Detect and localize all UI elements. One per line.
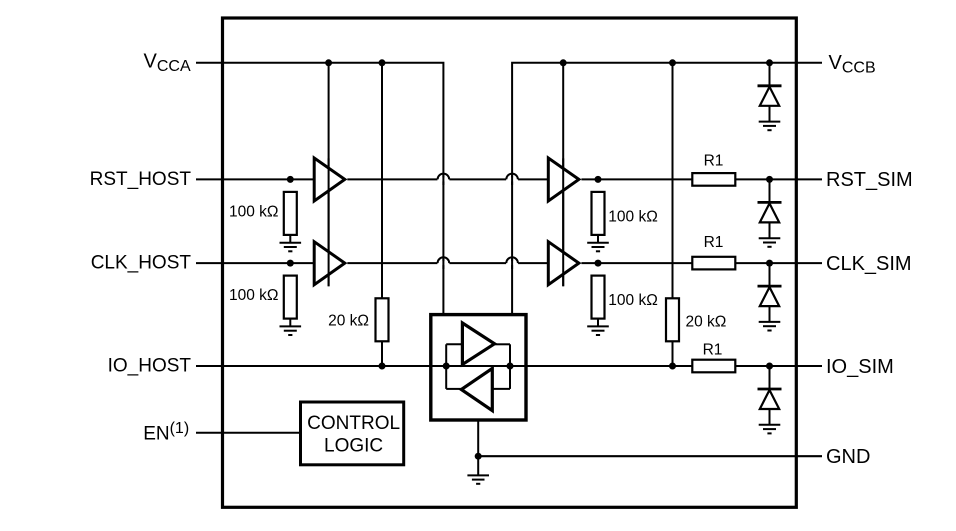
svg-text:IO_SIM: IO_SIM bbox=[826, 356, 894, 378]
svg-text:R1: R1 bbox=[704, 234, 724, 251]
svg-text:CONTROL: CONTROL bbox=[307, 413, 400, 434]
svg-text:GND: GND bbox=[826, 446, 870, 468]
svg-text:R1: R1 bbox=[704, 153, 724, 170]
svg-text:100 kΩ: 100 kΩ bbox=[608, 208, 658, 225]
svg-text:CLK_HOST: CLK_HOST bbox=[91, 253, 192, 274]
svg-text:RST_HOST: RST_HOST bbox=[90, 169, 192, 190]
svg-text:100 kΩ: 100 kΩ bbox=[229, 204, 279, 221]
svg-text:CLK_SIM: CLK_SIM bbox=[826, 253, 912, 275]
svg-text:LOGIC: LOGIC bbox=[324, 436, 383, 457]
svg-text:IO_HOST: IO_HOST bbox=[108, 356, 192, 377]
svg-text:R1: R1 bbox=[703, 342, 723, 359]
svg-text:20 kΩ: 20 kΩ bbox=[686, 314, 727, 331]
svg-text:20 kΩ: 20 kΩ bbox=[328, 313, 369, 330]
svg-text:RST_SIM: RST_SIM bbox=[826, 169, 913, 191]
svg-text:100 kΩ: 100 kΩ bbox=[229, 287, 279, 304]
svg-text:100 kΩ: 100 kΩ bbox=[608, 292, 658, 309]
